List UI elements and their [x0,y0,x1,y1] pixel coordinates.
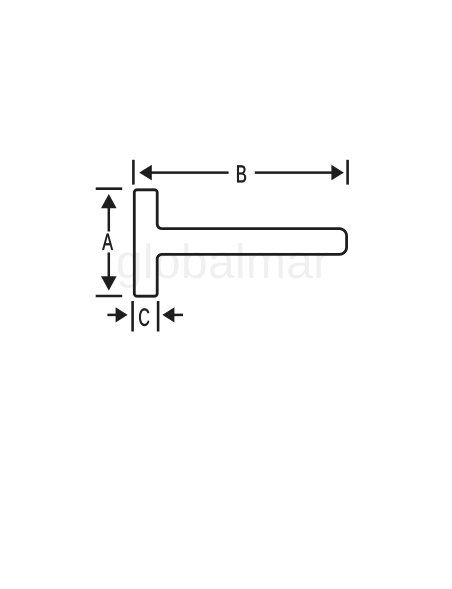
T-bar body outline [134,190,346,296]
dim B right arrowhead [331,165,343,181]
dim A label [102,234,113,250]
dim C left arrowhead [116,307,128,322]
dim A down arrowhead [101,276,117,290]
dim A lower line [108,253,111,278]
dim B left line [151,171,229,174]
dim A top tick [96,187,123,190]
dim A upper line [108,208,111,232]
dim B label [237,165,246,182]
dim A bottom tick [96,295,123,298]
dim C left tick [131,301,134,332]
dim B left tick [132,160,135,185]
dim C right line [174,314,183,317]
dim C label [139,308,149,326]
dim C left line [107,314,116,317]
dim B left arrowhead [139,165,152,181]
dim B right tick [346,160,349,185]
dim A up arrowhead [101,194,117,208]
dim C right arrowhead [162,307,174,322]
dim B right line [255,171,332,174]
dim C right tick [157,301,160,332]
watermark globalmar [118,243,328,288]
